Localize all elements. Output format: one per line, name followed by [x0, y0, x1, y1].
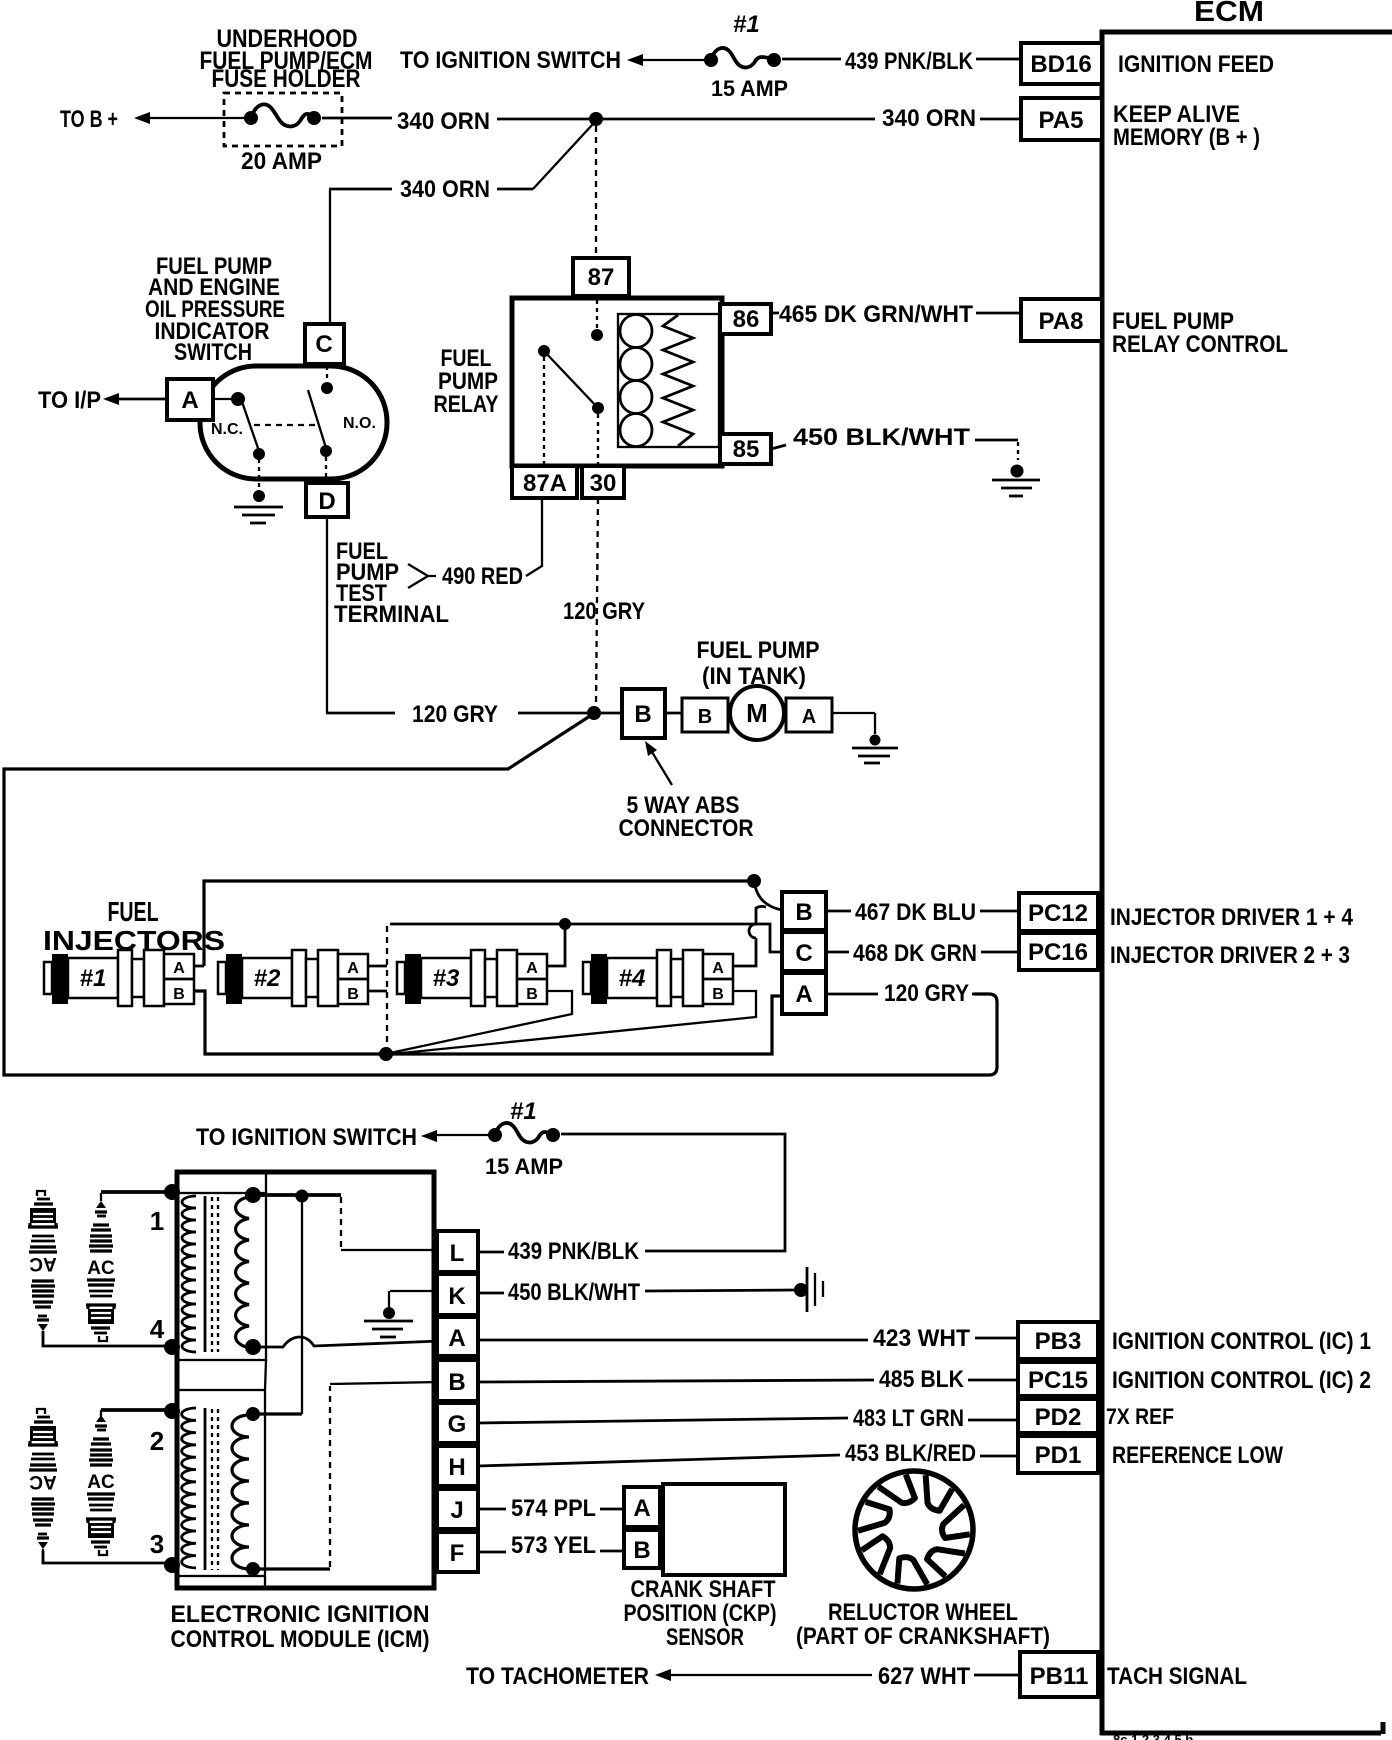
svg-text:439 PNK/BLK: 439 PNK/BLK [845, 48, 974, 75]
svg-text:PB11: PB11 [1030, 1663, 1089, 1690]
svg-text:574 PPL: 574 PPL [511, 1495, 596, 1522]
svg-text:423 WHT: 423 WHT [873, 1325, 970, 1352]
svg-text:1: 1 [150, 1206, 164, 1236]
svg-text:TO TACHOMETER: TO TACHOMETER [466, 1663, 649, 1690]
svg-text:#1: #1 [510, 1098, 537, 1125]
svg-text:PC15: PC15 [1028, 1367, 1088, 1394]
svg-text:7X REF: 7X REF [1106, 1404, 1174, 1429]
svg-text:FUSE HOLDER: FUSE HOLDER [212, 65, 361, 93]
svg-text:TACH SIGNAL: TACH SIGNAL [1107, 1663, 1247, 1690]
svg-text:#1: #1 [733, 11, 760, 38]
svg-text:SWITCH: SWITCH [174, 339, 252, 366]
svg-text:TO IGNITION SWITCH: TO IGNITION SWITCH [400, 47, 621, 74]
svg-text:PD1: PD1 [1035, 1442, 1082, 1469]
svg-text:POSITION (CKP): POSITION (CKP) [624, 1600, 777, 1627]
svg-text:L: L [450, 1240, 465, 1267]
svg-text:30: 30 [590, 470, 617, 497]
svg-text:340 ORN: 340 ORN [397, 108, 490, 135]
svg-text:15 AMP: 15 AMP [711, 76, 788, 101]
svg-text:450 BLK/WHT: 450 BLK/WHT [508, 1279, 640, 1306]
svg-text:ELECTRONIC IGNITION: ELECTRONIC IGNITION [171, 1601, 430, 1628]
svg-text:468 DK GRN: 468 DK GRN [853, 940, 977, 967]
svg-text:87: 87 [588, 264, 615, 291]
svg-text:3: 3 [150, 1529, 164, 1559]
svg-text:#1: #1 [80, 965, 107, 992]
svg-text:RELUCTOR WHEEL: RELUCTOR WHEEL [828, 1599, 1018, 1626]
svg-text:INJECTOR DRIVER 1 + 4: INJECTOR DRIVER 1 + 4 [1110, 904, 1354, 931]
svg-text:B: B [634, 701, 651, 728]
svg-text:PC16: PC16 [1028, 939, 1088, 966]
svg-text:INJECTORS: INJECTORS [43, 925, 225, 956]
svg-text:G: G [448, 1411, 467, 1438]
svg-text:CONTROL MODULE (ICM): CONTROL MODULE (ICM) [171, 1626, 430, 1653]
svg-text:(PART OF CRANKSHAFT): (PART OF CRANKSHAFT) [796, 1623, 1050, 1650]
svg-text:A: A [633, 1495, 650, 1522]
svg-text:B: B [633, 1537, 650, 1564]
svg-text:#3: #3 [433, 965, 460, 992]
svg-text:N.O.: N.O. [343, 415, 376, 432]
svg-text:TO I/P: TO I/P [38, 387, 101, 414]
svg-text:BD16: BD16 [1030, 51, 1091, 78]
svg-text:465 DK GRN/WHT: 465 DK GRN/WHT [779, 301, 973, 328]
svg-text:SENSOR: SENSOR [666, 1624, 744, 1651]
svg-text:M: M [746, 698, 768, 728]
svg-text:#2: #2 [254, 965, 281, 992]
svg-text:J: J [450, 1497, 463, 1524]
svg-text:C: C [315, 331, 332, 358]
svg-text:A: A [795, 981, 812, 1008]
svg-text:20 AMP: 20 AMP [241, 148, 322, 175]
svg-text:IGNITION CONTROL (IC) 1: IGNITION CONTROL (IC) 1 [1112, 1328, 1371, 1355]
svg-text:340 ORN: 340 ORN [400, 176, 490, 203]
svg-text:120 GRY: 120 GRY [412, 701, 498, 728]
svg-text:CONNECTOR: CONNECTOR [619, 815, 754, 842]
svg-text:REFERENCE LOW: REFERENCE LOW [1112, 1442, 1283, 1469]
svg-text:120 GRY: 120 GRY [884, 980, 969, 1007]
svg-text:FUEL: FUEL [108, 896, 159, 927]
svg-text:PB3: PB3 [1035, 1328, 1082, 1355]
svg-text:2: 2 [150, 1426, 164, 1456]
svg-text:IGNITION CONTROL (IC) 2: IGNITION CONTROL (IC) 2 [1112, 1367, 1371, 1394]
svg-text:TERMINAL: TERMINAL [334, 601, 449, 628]
svg-text:453 BLK/RED: 453 BLK/RED [845, 1440, 976, 1467]
svg-text:PA5: PA5 [1039, 107, 1084, 134]
svg-text:RELAY: RELAY [434, 391, 499, 418]
svg-text:A: A [448, 1325, 465, 1352]
svg-text:C: C [795, 940, 812, 967]
svg-text:4: 4 [150, 1314, 165, 1344]
svg-text:450 BLK/WHT: 450 BLK/WHT [793, 424, 970, 451]
svg-text:ECM: ECM [1194, 0, 1264, 28]
svg-text:MEMORY (B + ): MEMORY (B + ) [1113, 124, 1260, 151]
svg-text:485 BLK: 485 BLK [879, 1366, 965, 1393]
svg-text:#4: #4 [619, 965, 646, 992]
svg-text:H: H [448, 1454, 465, 1481]
svg-text:D: D [318, 488, 335, 515]
svg-text:A: A [802, 706, 816, 728]
svg-text:F: F [450, 1540, 465, 1567]
svg-text:TO B +: TO B + [60, 106, 118, 133]
svg-text:IGNITION FEED: IGNITION FEED [1118, 51, 1274, 78]
svg-text:439 PNK/BLK: 439 PNK/BLK [508, 1238, 640, 1265]
svg-text:B: B [795, 899, 812, 926]
svg-text:85: 85 [733, 436, 760, 463]
svg-text:N.C.: N.C. [211, 421, 243, 438]
svg-text:CRANK SHAFT: CRANK SHAFT [631, 1576, 776, 1603]
svg-text:PC12: PC12 [1028, 900, 1088, 927]
svg-text:15 AMP: 15 AMP [485, 1154, 563, 1179]
svg-text:B: B [698, 706, 712, 728]
svg-text:86: 86 [733, 306, 760, 333]
svg-text:FUEL PUMP: FUEL PUMP [697, 637, 820, 664]
svg-text:A: A [181, 387, 198, 414]
svg-text:483 LT GRN: 483 LT GRN [853, 1405, 964, 1432]
svg-text:K: K [448, 1283, 466, 1310]
svg-text:TO IGNITION SWITCH: TO IGNITION SWITCH [196, 1124, 417, 1151]
svg-text:467 DK BLU: 467 DK BLU [855, 899, 976, 926]
svg-text:8c 1 2 3 4 5 b: 8c 1 2 3 4 5 b [1113, 1732, 1193, 1740]
svg-text:PD2: PD2 [1035, 1404, 1082, 1431]
svg-text:PA8: PA8 [1039, 308, 1084, 335]
svg-text:87A: 87A [523, 470, 567, 497]
svg-text:B: B [448, 1369, 465, 1396]
svg-text:340 ORN: 340 ORN [882, 105, 976, 132]
svg-text:490 RED: 490 RED [442, 563, 523, 590]
svg-text:573 YEL: 573 YEL [511, 1532, 596, 1559]
svg-text:RELAY CONTROL: RELAY CONTROL [1112, 331, 1288, 358]
svg-text:627 WHT: 627 WHT [878, 1663, 970, 1690]
svg-text:INJECTOR DRIVER 2 + 3: INJECTOR DRIVER 2 + 3 [1110, 942, 1350, 969]
svg-text:120 GRY: 120 GRY [563, 598, 645, 625]
